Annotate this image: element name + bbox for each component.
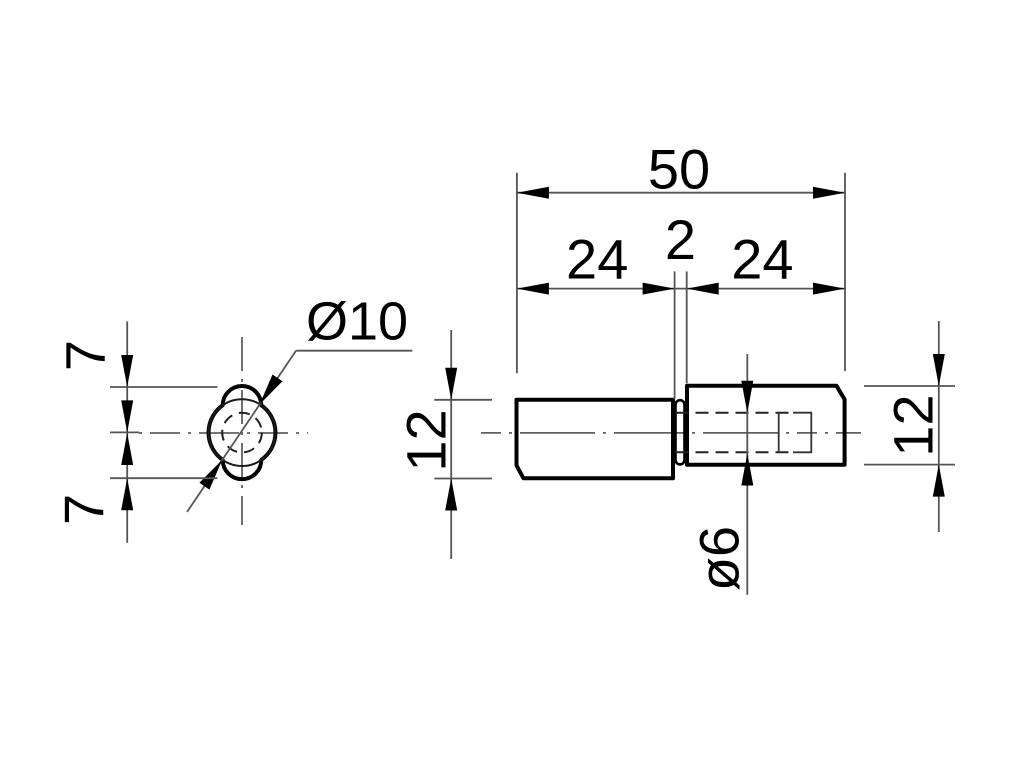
7 top extension line xyxy=(110,386,217,388)
circle D10 xyxy=(209,399,276,466)
50 arrow left xyxy=(517,187,549,199)
leader arrow lower xyxy=(199,460,222,490)
svg-text:12: 12 xyxy=(395,409,458,471)
svg-text:12: 12 xyxy=(882,394,945,456)
svg-text:Ø10: Ø10 xyxy=(306,292,408,352)
12 left arrow top xyxy=(445,368,457,400)
svg-text:7: 7 xyxy=(54,340,117,371)
left body outline xyxy=(517,400,674,479)
right body outline xyxy=(687,386,845,465)
24 right arrow left xyxy=(687,283,719,295)
12 right bottom extension xyxy=(864,464,955,466)
leader horizontal line under D10 text xyxy=(296,350,412,352)
7 arrow 3 up at middle xyxy=(121,433,133,465)
7 arrow 2 down at middle xyxy=(121,400,133,432)
svg-text:24: 24 xyxy=(566,228,628,291)
24 left arrow left xyxy=(517,283,549,295)
outline of eccentric: circle with pointed caps top and bottom xyxy=(209,386,276,479)
7 bottom extension line xyxy=(110,477,217,479)
d6 arrow bottom xyxy=(741,454,753,486)
7 middle tick xyxy=(110,431,139,433)
svg-text:24: 24 xyxy=(731,228,793,291)
vertical centerline of end view xyxy=(241,337,243,525)
d6 dimension line vertical xyxy=(746,354,748,595)
12 right arrow bottom xyxy=(933,465,945,497)
horizontal centerline of side view xyxy=(481,432,861,434)
50 extension line right xyxy=(844,173,846,371)
50 extension line left xyxy=(516,173,518,374)
12 right top extension xyxy=(864,385,955,387)
12 right dimension line xyxy=(938,321,940,532)
leader diagonal line for D10 xyxy=(187,351,296,513)
50 arrow right xyxy=(813,187,845,199)
svg-text:2: 2 xyxy=(665,208,696,271)
12 left arrow bottom xyxy=(445,479,457,511)
12 left dimension line xyxy=(450,330,452,559)
7 arrow 1 down at top ext xyxy=(121,355,133,387)
svg-text:50: 50 xyxy=(648,138,710,201)
horizontal centerline of end view xyxy=(139,432,308,434)
hidden circle d6 xyxy=(222,413,262,453)
hidden hole line top xyxy=(676,412,791,414)
neck groove xyxy=(676,400,685,464)
12 left top extension xyxy=(434,399,492,401)
2 extension line left xyxy=(674,271,676,399)
2 extension line right xyxy=(686,271,688,383)
12 right arrow top xyxy=(933,354,945,386)
hole inner vertical line xyxy=(778,413,780,453)
leader arrow upper xyxy=(260,375,283,405)
svg-text:7: 7 xyxy=(52,494,115,525)
12 left bottom extension xyxy=(434,478,492,480)
24 left arrow right xyxy=(643,283,675,295)
hidden hole line bottom xyxy=(676,451,791,453)
hole end bracket xyxy=(793,413,811,453)
24/2/24 dimension line xyxy=(517,288,845,290)
7/7 dimension line vertical xyxy=(126,321,128,542)
d6 arrow top xyxy=(741,381,753,413)
24 right arrow right xyxy=(813,283,845,295)
50 dimension line xyxy=(517,192,845,194)
7 arrow 4 up at bottom ext xyxy=(121,478,133,510)
svg-text:ø6: ø6 xyxy=(688,526,751,591)
